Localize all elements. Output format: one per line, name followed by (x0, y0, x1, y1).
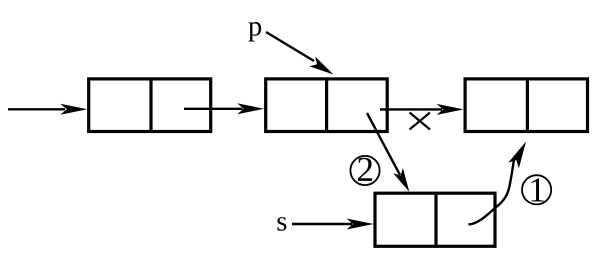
arrow from p to box2 (266, 32, 334, 75)
arrow from s into box4 (292, 219, 374, 230)
label s (277, 217, 286, 231)
node box 2 (node p) (266, 79, 388, 132)
node box 3 (465, 79, 587, 132)
wire: pointer from box1 to box2 (184, 103, 264, 114)
arrow 2: from box2 pointer down to box4 (367, 113, 409, 192)
arrow 1: curved from box4 up to box3 (469, 142, 527, 225)
node box 4 (node s) (375, 193, 495, 246)
node box 1 (89, 79, 211, 132)
circled 2 label (350, 156, 379, 185)
wire: pointer from box2 toward box3 (being cut) (380, 104, 464, 115)
cross mark X on cut pointer (410, 113, 431, 130)
circled 1 label (522, 175, 551, 204)
entry arrow into box 1 (8, 104, 87, 115)
label p (248, 22, 261, 41)
